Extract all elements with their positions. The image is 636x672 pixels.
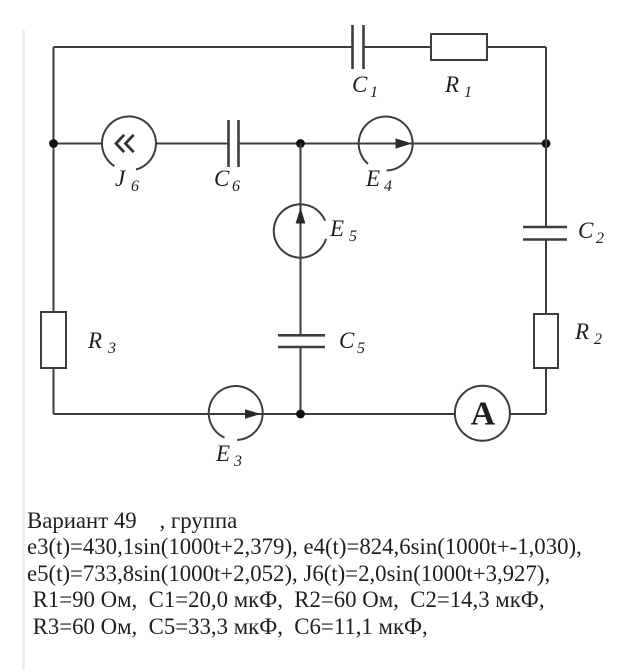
wire left vertical lower xyxy=(53,368,55,414)
svg-text:2: 2 xyxy=(596,230,604,247)
svg-text:E: E xyxy=(329,216,344,241)
capacitor C1 xyxy=(353,25,364,69)
svg-text:5: 5 xyxy=(349,228,357,245)
svg-text:6: 6 xyxy=(232,178,240,195)
resistor R1 xyxy=(431,34,487,60)
wire C6 to node B xyxy=(239,143,301,145)
wire middle vertical upper xyxy=(300,144,302,336)
svg-text:3: 3 xyxy=(233,453,242,470)
wire row2 left segment xyxy=(54,143,103,145)
wire middle vertical lower xyxy=(300,347,302,414)
label R3 xyxy=(87,328,116,357)
svg-text:E: E xyxy=(365,166,380,191)
svg-text:A: A xyxy=(471,396,496,433)
node A left xyxy=(49,139,58,148)
wire right vertical upper xyxy=(545,47,547,227)
wire left vertical upper xyxy=(53,47,55,312)
svg-text:R: R xyxy=(87,328,102,353)
wire node B through E4 to node C xyxy=(301,143,547,145)
wire C1 to R1 xyxy=(364,46,431,48)
svg-text:1: 1 xyxy=(464,84,472,101)
resistor R2 xyxy=(534,314,558,368)
svg-text:R: R xyxy=(574,319,589,344)
label J6 xyxy=(115,166,139,195)
label E3 xyxy=(215,441,242,470)
svg-text:C: C xyxy=(578,218,594,243)
svg-text:3: 3 xyxy=(107,340,116,357)
svg-text:C: C xyxy=(214,166,230,191)
svg-text:2: 2 xyxy=(594,331,602,348)
wire R1 to top-right corner xyxy=(487,46,546,48)
wire C2 to R2 xyxy=(545,240,547,315)
svg-text:6: 6 xyxy=(131,178,139,195)
svg-text:C: C xyxy=(352,72,368,97)
svg-text:R: R xyxy=(444,72,459,97)
voltage source E5 xyxy=(274,204,326,257)
svg-text:J: J xyxy=(115,166,127,191)
wire ammeter to bottom-right corner xyxy=(510,413,546,415)
ammeter letter xyxy=(471,396,496,433)
capacitor C5 xyxy=(278,335,325,347)
capacitor C2 xyxy=(523,227,567,240)
voltage source E4 xyxy=(359,117,413,171)
E3 arrowhead xyxy=(245,409,261,419)
label C1 xyxy=(352,72,378,101)
svg-text:5: 5 xyxy=(357,340,365,357)
label R1 xyxy=(444,72,472,101)
svg-text:E: E xyxy=(215,441,230,466)
wire right vertical lower xyxy=(545,368,547,414)
parameters text block xyxy=(27,508,636,640)
E4 arrowhead xyxy=(396,138,413,148)
label C6 xyxy=(214,166,240,195)
label C5 xyxy=(339,328,365,357)
svg-text:4: 4 xyxy=(384,178,392,195)
node B middle xyxy=(296,139,305,148)
label E4 xyxy=(365,166,392,195)
current source J6 xyxy=(102,116,156,169)
E5 arrowhead xyxy=(296,208,306,224)
node D bottom middle xyxy=(296,410,305,419)
ammeter A xyxy=(455,386,510,441)
capacitor C6 xyxy=(229,120,239,167)
svg-text:C: C xyxy=(339,328,355,353)
wire bottom left segment through E3 xyxy=(54,413,456,415)
resistor R3 xyxy=(41,312,66,368)
label E5 xyxy=(329,216,357,245)
wire J6 to C6 xyxy=(156,143,228,145)
node C right xyxy=(542,139,551,148)
voltage source E3 xyxy=(209,386,263,440)
svg-text:1: 1 xyxy=(370,84,378,101)
label R2 xyxy=(574,319,602,348)
wire top-left horizontal xyxy=(54,46,353,48)
scan artifact line xyxy=(22,30,25,670)
label C2 xyxy=(578,218,604,247)
J6 arrow glyph xyxy=(116,135,134,152)
